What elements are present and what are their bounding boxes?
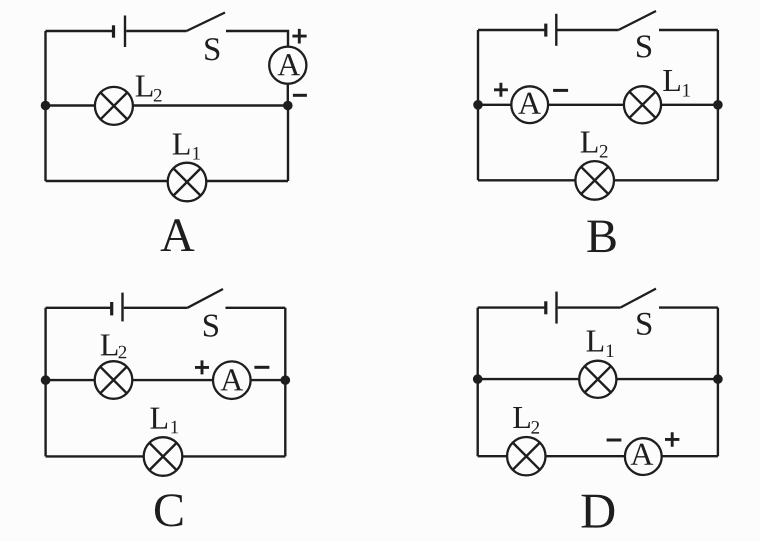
battery BT3 long plate (positive) bbox=[121, 293, 123, 322]
minus polarity mark of ammeter A2 bbox=[553, 89, 568, 92]
wire: A middle horizontal bbox=[46, 104, 289, 106]
switch S blade (open) bbox=[187, 13, 226, 32]
label A inside ammeter of circuit D bbox=[631, 444, 654, 465]
wire: B middle horizontal bbox=[478, 104, 718, 106]
wire: C bottom horizontal bbox=[46, 455, 286, 457]
battery BT2 short plate (negative) bbox=[544, 24, 547, 37]
minus polarity mark of ammeter A4 bbox=[607, 439, 622, 442]
lamp L2 of circuit A bbox=[95, 87, 133, 125]
wire: D right vertical bbox=[717, 308, 719, 457]
wire: B switch to top-right corner bbox=[659, 29, 718, 31]
label L2 of circuit B bbox=[581, 132, 598, 153]
lamp L2 of circuit C bbox=[95, 361, 133, 399]
lamp L1 of circuit C bbox=[144, 437, 183, 476]
junction node right of C middle wire bbox=[281, 375, 291, 385]
plus polarity mark of ammeter A1 bbox=[292, 29, 306, 44]
wire: B right vertical bbox=[717, 30, 719, 180]
battery BT2 long plate (positive) bbox=[555, 14, 557, 46]
junction node right of D middle wire bbox=[713, 374, 723, 384]
lamp L1 of circuit A bbox=[168, 163, 207, 202]
minus polarity mark of ammeter A3 bbox=[254, 366, 269, 369]
label L2 of circuit A bbox=[136, 76, 153, 97]
wire: A ammeter to middle junction bbox=[287, 84, 289, 106]
ammeter A3 circle bbox=[213, 361, 251, 399]
label S of circuit C bbox=[204, 315, 218, 337]
battery BT4 long plate (positive) bbox=[555, 292, 557, 324]
ammeter A4 circle bbox=[625, 438, 662, 475]
plus polarity mark of ammeter A3 bbox=[195, 360, 209, 374]
wire: A switch to top-right corner down to ammeter bbox=[226, 31, 288, 47]
wire: C top left segment bbox=[46, 307, 111, 309]
lamp L2 of circuit D bbox=[507, 437, 545, 475]
wire: C battery to switch bbox=[124, 307, 188, 309]
plus polarity mark of ammeter A2 bbox=[494, 83, 508, 97]
wire: A right vertical lower bbox=[287, 106, 289, 182]
answer label D bbox=[582, 495, 615, 528]
wire: C switch to top-right corner bbox=[226, 307, 286, 309]
answer label C bbox=[155, 494, 182, 526]
wire: A top left segment bbox=[46, 30, 113, 32]
label L1 of circuit A bbox=[173, 134, 190, 155]
label S of circuit B bbox=[637, 35, 651, 57]
label S of circuit A bbox=[205, 38, 219, 60]
switch S blade of circuit B bbox=[618, 11, 656, 30]
switch S blade of circuit C bbox=[187, 289, 223, 308]
wire: B battery to switch bbox=[558, 29, 619, 31]
wire: D switch to top-right corner bbox=[659, 306, 718, 308]
minus polarity mark of ammeter A1 bbox=[293, 94, 307, 97]
wire: B top left segment bbox=[478, 29, 545, 31]
label A inside ammeter of circuit C bbox=[221, 369, 244, 390]
wire: D battery to switch bbox=[558, 306, 621, 308]
junction node left of D middle wire bbox=[473, 374, 483, 384]
wire: C right vertical bbox=[284, 308, 286, 457]
label S of circuit D bbox=[637, 313, 651, 335]
battery BT4 short plate (negative) bbox=[544, 301, 547, 314]
wire: D left vertical bbox=[477, 308, 479, 457]
battery BT3 short plate (negative) bbox=[110, 302, 113, 315]
label L2 of circuit D bbox=[513, 407, 530, 428]
label A inside ammeter of circuit B bbox=[518, 93, 541, 114]
lamp L1 of circuit B bbox=[624, 86, 661, 123]
answer label B bbox=[587, 221, 615, 253]
junction node left of B middle wire bbox=[473, 100, 483, 110]
wire: B bottom horizontal bbox=[478, 179, 718, 181]
wire: A battery to switch bbox=[126, 30, 186, 32]
label L1 of circuit B bbox=[663, 70, 680, 91]
label L2 of circuit C bbox=[101, 334, 118, 355]
wire: D middle horizontal bbox=[478, 378, 718, 380]
plus polarity mark of ammeter A4 bbox=[665, 432, 679, 447]
switch S blade of circuit D bbox=[620, 289, 656, 308]
wire: C left vertical bbox=[44, 308, 46, 457]
wire: D bottom horizontal bbox=[478, 455, 718, 457]
label L1 of circuit C bbox=[150, 408, 167, 429]
wire: A left vertical bbox=[44, 31, 46, 181]
wire: D top left segment bbox=[478, 306, 545, 308]
wire: A bottom horizontal bbox=[46, 180, 289, 182]
junction node left of A middle wire bbox=[41, 101, 51, 111]
battery BT1 short plate (negative) bbox=[112, 25, 115, 37]
ammeter A1 circle bbox=[269, 47, 306, 84]
label L1 of circuit D bbox=[587, 331, 604, 352]
junction node left of C middle wire bbox=[41, 375, 51, 385]
wire: C middle horizontal bbox=[46, 379, 286, 381]
lamp L1 of circuit D bbox=[579, 361, 616, 398]
ammeter A2 circle bbox=[511, 86, 548, 123]
junction node right of A middle wire bbox=[283, 101, 293, 111]
label A inside ammeter of circuit A bbox=[278, 54, 301, 75]
battery BT1 long plate (positive) bbox=[124, 16, 126, 48]
junction node right of B middle wire bbox=[713, 100, 723, 110]
lamp L2 of circuit B bbox=[575, 161, 614, 200]
wire: B left vertical bbox=[477, 30, 479, 180]
answer label A bbox=[161, 219, 195, 251]
